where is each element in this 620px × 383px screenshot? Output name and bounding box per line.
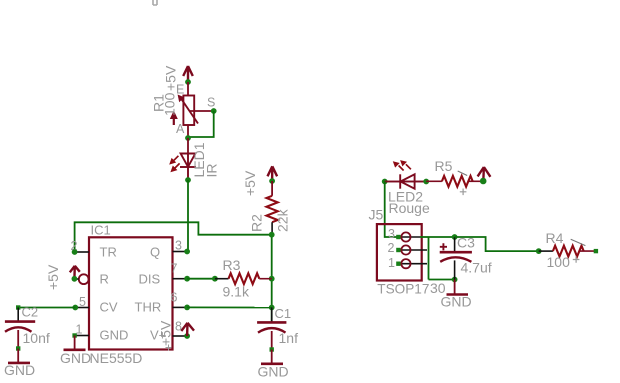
R4 origin cross xyxy=(573,256,580,263)
capacitor C2 wire to pin5 xyxy=(18,307,75,309)
op-amp IC1 NE555D body xyxy=(89,237,173,349)
pin 1 GND stub xyxy=(75,335,89,337)
node trunk/THR junction xyxy=(269,305,275,311)
wire R2 trunk xyxy=(271,235,273,323)
svg-text:J5: J5 xyxy=(369,207,384,223)
led LED1 xyxy=(180,154,196,181)
node R4 left junction xyxy=(536,248,542,254)
node pin2 junction xyxy=(72,249,78,255)
+5V supply symbol at R5 xyxy=(478,167,491,181)
wire LED1 to pin Q xyxy=(187,180,189,252)
node R4 right end xyxy=(594,249,598,253)
+5V supply symbol above R2 xyxy=(268,166,278,181)
led LED1 emission arrows xyxy=(169,156,179,172)
node pin R junction xyxy=(72,276,78,282)
svg-text:10nf: 10nf xyxy=(23,330,50,346)
resistor R2 xyxy=(267,181,278,235)
resistor R1 (trimmer body) xyxy=(183,96,194,126)
node R5 right junction xyxy=(480,178,487,185)
pin 2 line (J5) xyxy=(398,249,427,251)
ground symbol (C2) xyxy=(8,362,30,365)
wire J5 pin3 to rail xyxy=(420,236,429,238)
pin 3 Q stub xyxy=(173,251,188,253)
connector J5 body xyxy=(377,224,422,280)
svg-text:GND: GND xyxy=(441,294,472,310)
capacitor C2 xyxy=(5,308,35,349)
wire pin1 to ground xyxy=(74,336,76,350)
wire rail to C3 top xyxy=(429,236,455,238)
wire THR to trunk xyxy=(187,306,272,308)
svg-text:2: 2 xyxy=(388,241,395,255)
node R2 top junction xyxy=(269,178,275,184)
ground symbol (C1) xyxy=(261,362,283,365)
svg-text:NE555D: NE555D xyxy=(90,350,143,366)
trimmer R1 adjust arrow xyxy=(170,111,178,126)
pin wire S (wiper) xyxy=(190,110,214,112)
pin 1 circle (J5) xyxy=(401,259,410,268)
+5V supply symbol above R1 xyxy=(183,66,193,81)
wire LED2 to J5 pin3 xyxy=(385,182,399,238)
svg-text:C2: C2 xyxy=(22,305,39,320)
svg-text:R5: R5 xyxy=(435,158,453,174)
svg-text:C1: C1 xyxy=(275,306,292,321)
node trunk/DIS junction xyxy=(269,276,275,282)
svg-text:3: 3 xyxy=(175,239,182,253)
node pin1 junction xyxy=(72,333,76,337)
wire C2 to ground xyxy=(17,349,19,363)
svg-text:GND: GND xyxy=(258,364,289,380)
pin 3 circle (J5) xyxy=(401,232,410,241)
svg-text:S: S xyxy=(207,96,215,110)
wire C3 to R4 xyxy=(455,237,539,251)
wire C1 to ground xyxy=(271,350,273,364)
node C1 bottom xyxy=(270,347,274,351)
svg-text:1: 1 xyxy=(388,256,395,270)
svg-text:6: 6 xyxy=(171,291,178,305)
node A junction xyxy=(185,135,191,141)
IC origin cross xyxy=(166,345,172,351)
svg-text:R2: R2 xyxy=(249,214,265,232)
pin 1 line (J5) xyxy=(398,263,427,265)
wire S to A xyxy=(188,111,214,137)
svg-text:GND: GND xyxy=(100,328,129,343)
ground symbol (IC1 pin1) xyxy=(64,348,86,351)
node R3 left junction xyxy=(212,276,218,282)
svg-text:TSOP17: TSOP17 xyxy=(377,282,429,297)
node LED2 anode junction xyxy=(382,179,388,185)
pin 7 DIS stub xyxy=(173,278,188,280)
svg-text:4.7uf: 4.7uf xyxy=(461,260,492,276)
svg-text:CV: CV xyxy=(100,300,118,315)
capacitor C3 xyxy=(440,237,472,280)
svg-text:+5V: +5V xyxy=(45,264,61,290)
pin 4 R bubble xyxy=(79,274,89,284)
node trunk/TR junction xyxy=(269,232,275,238)
node J5 pin1 xyxy=(396,262,400,266)
svg-text:THR: THR xyxy=(135,300,162,315)
svg-text:Q: Q xyxy=(150,245,160,260)
pin 4 R stub xyxy=(74,278,78,280)
resistor R5 xyxy=(426,176,483,187)
node pin6 junction xyxy=(184,305,190,311)
node C2 bottom xyxy=(16,346,20,350)
svg-text:DIS: DIS xyxy=(139,272,161,287)
svg-text:TR: TR xyxy=(100,245,117,260)
node LED1 cathode junction xyxy=(185,177,191,183)
svg-text:R: R xyxy=(100,272,109,287)
svg-text:100: 100 xyxy=(547,254,571,270)
pin wire A xyxy=(187,125,189,138)
stray mark top edge xyxy=(153,0,157,5)
led LED1 anode wire xyxy=(187,138,189,154)
pin 2 TR stub xyxy=(75,251,89,253)
wire C3 to ground xyxy=(454,280,456,295)
resistor R4 xyxy=(539,246,596,257)
svg-text:R3: R3 xyxy=(223,257,241,273)
node J5 pin3 xyxy=(396,235,400,239)
node E junction xyxy=(185,79,191,85)
wire DIS to R3 xyxy=(187,278,215,280)
svg-text:A: A xyxy=(176,122,185,136)
trimmer R1 wiper diagonal arrow xyxy=(178,95,198,124)
svg-text:7: 7 xyxy=(171,262,178,276)
+5V supply symbol at pin 8 xyxy=(181,323,194,336)
svg-text:1nf: 1nf xyxy=(279,330,299,346)
pin 6 THR stub xyxy=(173,306,188,308)
svg-text:R4: R4 xyxy=(546,230,564,246)
pin 8 V+ stub xyxy=(173,335,188,337)
node C3 bottom junction xyxy=(452,277,458,283)
svg-text:GND: GND xyxy=(4,362,35,378)
svg-text:IR: IR xyxy=(204,164,220,178)
pin 2 circle (J5) xyxy=(401,245,410,254)
pin wire E xyxy=(187,82,189,96)
svg-text:GND: GND xyxy=(60,350,91,366)
svg-text:IC1: IC1 xyxy=(91,223,111,238)
node pin5 junction xyxy=(72,305,78,311)
resistor R3 xyxy=(215,273,272,284)
node pin8 junction xyxy=(184,333,190,339)
node C3 top junction xyxy=(452,234,458,240)
pin 5 CV stub xyxy=(75,307,89,309)
capacitor C1 xyxy=(257,308,286,350)
ground symbol (C3) xyxy=(447,293,469,296)
svg-text:8: 8 xyxy=(175,320,182,334)
node J5 pin2 xyxy=(396,248,400,252)
R5 adjust diagonal xyxy=(458,171,468,176)
svg-text:9.1k: 9.1k xyxy=(223,284,250,300)
wire TR net staircase xyxy=(75,222,272,252)
svg-text:3: 3 xyxy=(388,227,395,241)
svg-text:5: 5 xyxy=(79,295,86,309)
node C2 top xyxy=(16,305,20,309)
wire J5 rail xyxy=(428,237,430,280)
node pin7 junction xyxy=(184,276,190,282)
led LED2 xyxy=(385,174,427,188)
svg-text:Rouge: Rouge xyxy=(389,200,430,216)
node pin3 junction xyxy=(184,249,190,255)
+5V supply symbol at pin R xyxy=(70,266,80,279)
svg-text:+5V: +5V xyxy=(158,320,174,346)
led LED2 emission arrows xyxy=(393,160,411,170)
svg-text:+5V: +5V xyxy=(242,170,258,196)
svg-text:22k: 22k xyxy=(275,208,291,232)
node LED2/R5 junction xyxy=(423,179,429,185)
pin 3 line (J5) xyxy=(398,236,420,238)
svg-text:100: 100 xyxy=(162,92,178,116)
node S junction xyxy=(211,108,217,114)
R4 adjust diagonal xyxy=(571,239,586,245)
R5 origin cross xyxy=(460,189,467,196)
wire rail to C3 bottom xyxy=(429,279,455,281)
